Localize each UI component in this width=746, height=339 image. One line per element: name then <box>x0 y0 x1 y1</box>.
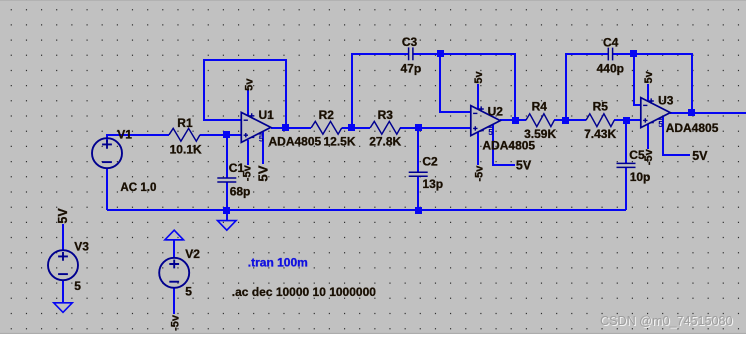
svg-text:5v: 5v <box>473 70 485 83</box>
svg-text:C4: C4 <box>603 35 619 49</box>
wire U1 V- pin <box>247 140 249 165</box>
junction U3 output node <box>688 109 695 116</box>
wire V3 bottom <box>62 280 64 303</box>
wire U3 V- pin <box>647 124 649 149</box>
wire U1 V+ pin <box>247 90 249 116</box>
capacitor C2 <box>409 172 428 176</box>
svg-text:-5v: -5v <box>242 164 254 181</box>
svg-text:-5v: -5v <box>170 314 182 331</box>
svg-text:27.8K: 27.8K <box>369 135 401 149</box>
svg-text:-5v: -5v <box>473 165 485 182</box>
svg-text:AC 1.0: AC 1.0 <box>120 181 156 194</box>
wire U2 PD pin <box>493 125 515 165</box>
junction node A (R1/C1/U1+) <box>223 131 230 138</box>
wire V2 bottom <box>173 288 175 314</box>
wire V1 bottom <box>106 168 108 210</box>
junction node X (R2/R3/C3) <box>348 124 355 131</box>
svg-text:10.1K: 10.1K <box>170 142 202 156</box>
wire R1 to node A / U1 noninv <box>200 134 241 136</box>
wire U3 PD pin <box>663 117 690 155</box>
junction node A gnd on bus <box>223 207 230 214</box>
wire C1 branch <box>226 135 228 210</box>
resistor R5 <box>586 114 614 127</box>
ground below C1 node <box>218 221 237 231</box>
svg-text:5: 5 <box>74 279 81 293</box>
op-amp U1 <box>241 112 270 142</box>
wire U1 output <box>271 127 311 129</box>
wire R3 to node B / U2 noninv <box>400 127 471 129</box>
svg-text:R3: R3 <box>378 108 394 122</box>
wire C5 branch <box>625 120 627 210</box>
wire R5 to node W / U3 noninv <box>614 119 641 121</box>
wire node X up to C3 line <box>352 54 409 128</box>
junction node W (R5/C5/U3+) <box>623 117 630 124</box>
junction U1 output node <box>282 124 289 131</box>
wire R4 to node Z <box>554 119 586 121</box>
svg-text:10p: 10p <box>630 170 651 184</box>
svg-text:U1: U1 <box>259 108 275 122</box>
wire C3 right to U2 output <box>413 54 515 120</box>
svg-text:C2: C2 <box>422 155 438 169</box>
wire ground stub below C1 node <box>226 210 228 221</box>
svg-text:5V: 5V <box>516 159 532 173</box>
resistor R3 <box>370 121 400 134</box>
svg-text:U3: U3 <box>658 93 674 107</box>
resistor R2 <box>311 121 342 134</box>
svg-text:CSDN @m0_74515080: CSDN @m0_74515080 <box>600 314 733 328</box>
voltage source V1 <box>92 138 122 168</box>
wire V2 top <box>173 240 175 258</box>
svg-text:440p: 440p <box>597 62 624 76</box>
op-amp U2 <box>471 106 501 136</box>
svg-text:5: 5 <box>259 134 264 144</box>
junction node Z (R4/R5/C4) <box>562 117 569 124</box>
svg-text:5v: 5v <box>643 70 655 83</box>
wire V1 top to R1 <box>107 135 169 142</box>
wire U2 V+ pin <box>477 84 479 109</box>
capacitor C5 <box>617 163 636 167</box>
op-amp U3 <box>641 98 671 128</box>
svg-text:.tran 100m: .tran 100m <box>248 256 308 270</box>
wire U3 V+ pin <box>647 84 649 101</box>
wire C4 tap down to U3 inv input <box>634 54 641 105</box>
svg-text:68p: 68p <box>230 184 251 198</box>
capacitor C3 <box>409 47 413 60</box>
wire C3 tap down to U2 inv input <box>440 54 471 112</box>
wire U2 V- pin <box>477 132 479 165</box>
svg-text:V2: V2 <box>185 247 200 261</box>
svg-text:12.5K: 12.5K <box>324 135 356 149</box>
svg-text:5: 5 <box>488 127 493 137</box>
wire V3 top <box>62 224 64 250</box>
voltage source V3 <box>48 250 78 280</box>
wire U1 PD pin <box>262 132 264 164</box>
svg-text:V1: V1 <box>117 128 132 142</box>
svg-text:R2: R2 <box>319 108 335 122</box>
wire R2 to node X <box>342 127 370 129</box>
svg-text:V3: V3 <box>74 239 89 253</box>
svg-text:7.43K: 7.43K <box>584 127 616 141</box>
svg-text:ADA4805: ADA4805 <box>269 135 322 149</box>
svg-text:5V: 5V <box>692 149 708 163</box>
svg-text:5: 5 <box>185 284 192 298</box>
capacitor C4 <box>608 48 612 61</box>
junction C2 on bus <box>415 207 422 214</box>
svg-text:.ac dec 10000 10 1000000: .ac dec 10000 10 1000000 <box>232 285 376 299</box>
svg-text:13p: 13p <box>422 177 443 191</box>
junction C4 tap to U3 inv <box>630 50 637 57</box>
ground below V3 <box>54 303 73 313</box>
wire U2 output to R4 <box>500 119 526 121</box>
wire node Z up to C4 line <box>566 54 608 120</box>
resistor R1 <box>169 128 200 141</box>
wire ground bus <box>107 209 626 211</box>
wire U1 feedback box <box>204 60 286 128</box>
svg-text:5V: 5V <box>56 208 70 224</box>
ground flag above V2 (rotated) <box>165 230 184 240</box>
junction node B (R3/C2/U2+) <box>415 124 422 131</box>
svg-text:5: 5 <box>658 119 663 129</box>
junction U2 output node <box>512 117 519 124</box>
junction C3 tap to U2 inv <box>437 50 444 57</box>
svg-text:R4: R4 <box>532 99 548 113</box>
svg-text:3.59K: 3.59K <box>524 127 556 141</box>
svg-text:R1: R1 <box>177 116 193 130</box>
svg-text:U2: U2 <box>488 104 504 118</box>
wire C4 right to U3 output <box>613 54 692 113</box>
svg-text:5V: 5V <box>256 165 271 181</box>
wire C2 branch <box>417 128 419 210</box>
wire U3 output to right edge <box>670 112 746 114</box>
svg-text:ADA4805: ADA4805 <box>666 121 719 135</box>
svg-text:R5: R5 <box>593 99 609 113</box>
resistor R4 <box>526 114 554 127</box>
svg-text:C3: C3 <box>402 35 418 49</box>
voltage source V2 <box>159 258 189 288</box>
svg-text:-5v: -5v <box>643 148 655 165</box>
svg-text:47p: 47p <box>401 62 422 76</box>
capacitor C1 <box>217 178 236 182</box>
svg-text:5v: 5v <box>244 78 256 91</box>
